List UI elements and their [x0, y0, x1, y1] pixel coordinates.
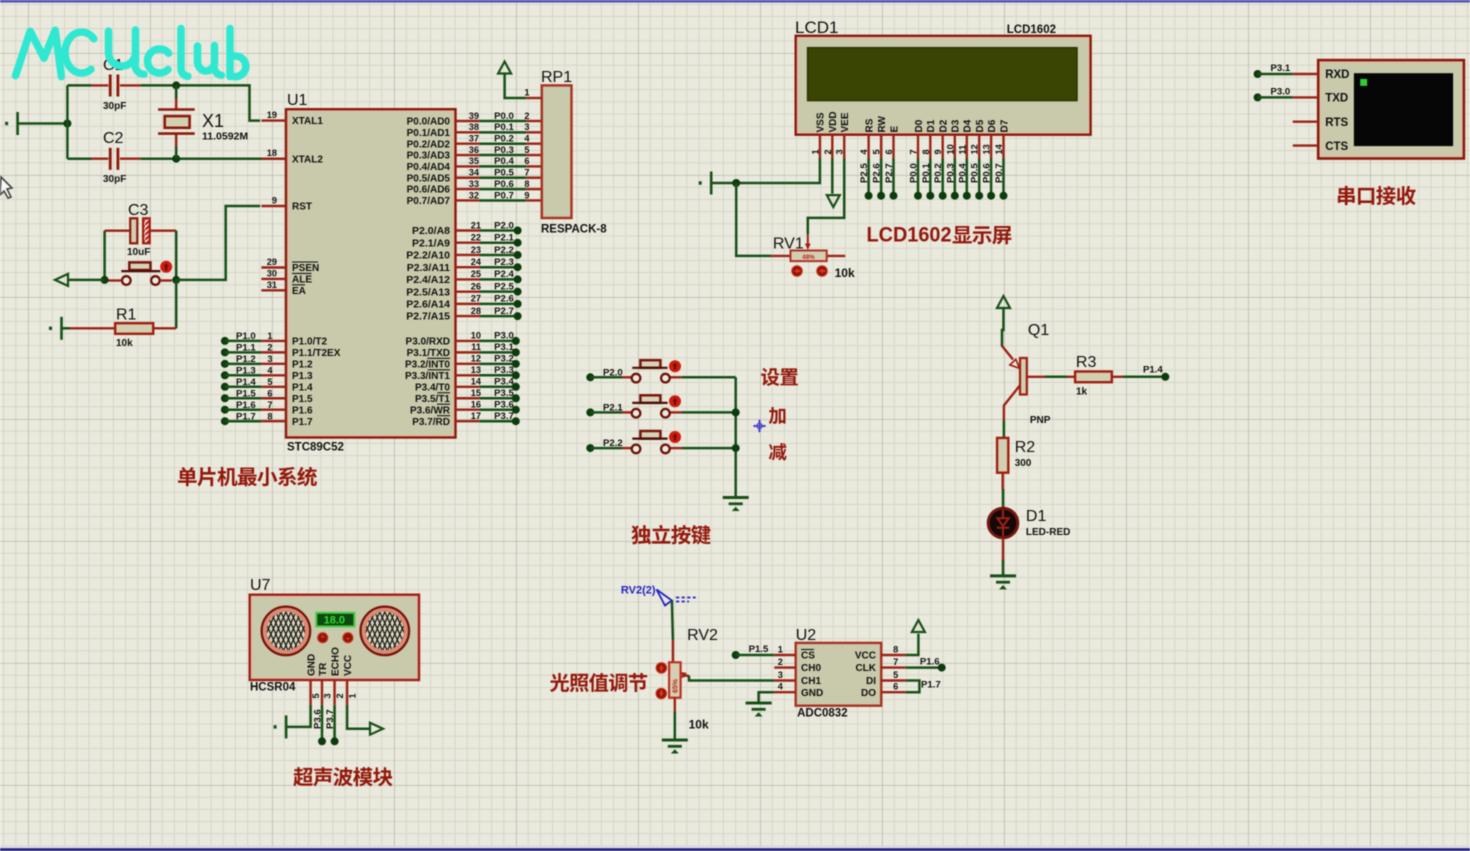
LED D1	[988, 508, 1018, 538]
LCD pin 5 RW	[880, 135, 882, 159]
capacitor C3 (polarized)	[105, 229, 130, 231]
svg-text:STC89C52: STC89C52	[287, 442, 344, 454]
svg-text:P3.0/RXD: P3.0/RXD	[406, 337, 450, 348]
LCD screen	[808, 48, 1077, 101]
svg-text:D5: D5	[975, 119, 986, 132]
wire VEE to RV1 wiper	[808, 159, 844, 235]
svg-text:LCD1602: LCD1602	[867, 223, 952, 246]
reset button	[129, 262, 150, 270]
svg-text:13: 13	[982, 144, 992, 154]
svg-text:33: 33	[469, 179, 479, 189]
svg-text:P0.3: P0.3	[494, 145, 514, 156]
svg-text:D6: D6	[987, 119, 998, 132]
svg-text:P2.4/A12: P2.4/A12	[406, 274, 450, 286]
svg-text:ADC0832: ADC0832	[797, 708, 848, 720]
U1 pin 38 P0.1/AD1 / wire to RP1 pin 3	[456, 131, 480, 133]
virtual terminal (serial monitor)	[1318, 60, 1464, 158]
svg-text:P3.3/INT1: P3.3/INT1	[405, 371, 450, 382]
svg-text:P0.2: P0.2	[494, 134, 514, 145]
svg-text:RP1: RP1	[541, 69, 572, 86]
svg-text:5: 5	[311, 693, 321, 698]
wire bottom rail	[67, 157, 91, 160]
wire ground to rail junction	[18, 122, 68, 125]
svg-text:RV2: RV2	[687, 627, 718, 644]
wire left vertical rail	[66, 85, 69, 158]
node junction (button left)	[101, 276, 109, 284]
mouse cursor	[0, 177, 12, 198]
LCD pin 4 RS	[867, 135, 869, 159]
power arrow (U7 VCC)	[370, 723, 383, 735]
svg-text:4: 4	[524, 134, 530, 144]
svg-text:VEE: VEE	[840, 112, 851, 132]
wire/node P2.5	[867, 159, 870, 196]
U1 pin 24 P2.3/A11 / node P2.3	[456, 266, 481, 268]
U1 pin 4 P1.3 / node P1.3	[221, 371, 229, 379]
svg-text:36: 36	[469, 145, 479, 155]
LCD pin 9 D2	[942, 135, 944, 159]
caption 设置	[761, 368, 798, 386]
svg-text:P2.3/A11: P2.3/A11	[407, 262, 450, 274]
svg-text:9: 9	[272, 196, 277, 206]
U7 pin 3 TR	[321, 680, 323, 705]
ground (D1)	[990, 576, 1016, 589]
svg-text:P0.2: P0.2	[933, 163, 944, 183]
U1 pin 32 P0.7/AD7 / wire to RP1 pin 9	[456, 199, 480, 201]
svg-text:RTS: RTS	[1325, 117, 1348, 129]
svg-text:CS: CS	[801, 651, 815, 662]
svg-text:Q1: Q1	[1028, 322, 1049, 339]
svg-text:6: 6	[884, 149, 894, 154]
LCD pin 2 VDD	[831, 135, 833, 159]
svg-text:14: 14	[471, 377, 482, 387]
wire VCC to power arrow	[347, 705, 370, 729]
wire probe to RV2	[672, 601, 673, 641]
svg-text:P3.6: P3.6	[494, 400, 514, 411]
svg-text:R1: R1	[116, 307, 137, 324]
potentiometer RV2	[669, 662, 681, 697]
svg-text:RESPACK-8: RESPACK-8	[541, 224, 607, 236]
power arrow (Q1 emitter)	[997, 296, 1010, 308]
svg-text:RST: RST	[292, 202, 312, 213]
svg-text:2: 2	[778, 657, 783, 667]
U2 pin 5 DI	[881, 679, 906, 681]
U1 pin 6 P1.5 / node P1.5	[221, 394, 229, 402]
wire power to emitter	[1002, 308, 1004, 347]
svg-text:18.0: 18.0	[324, 615, 345, 627]
wire/node P0.7	[1002, 159, 1005, 196]
resistor R3	[1067, 376, 1075, 378]
svg-text:P3.0: P3.0	[494, 331, 514, 342]
wire base to R3	[1027, 376, 1045, 378]
svg-text:15: 15	[471, 388, 481, 398]
wire button down to R1	[175, 280, 178, 328]
svg-text:P2.5/A13: P2.5/A13	[406, 286, 450, 298]
wire R3 to P1.4	[1123, 376, 1165, 379]
node junction bottom rail	[172, 155, 180, 163]
svg-text:P2.5: P2.5	[859, 163, 870, 183]
svg-text:P0.6: P0.6	[982, 163, 993, 183]
svg-text:D0: D0	[914, 119, 925, 132]
svg-text:19: 19	[267, 110, 277, 120]
U1 pin 7 P1.6 / node P1.6	[221, 406, 229, 414]
U2 pin 2 CH0	[774, 666, 795, 668]
svg-text:P0.6: P0.6	[494, 179, 514, 190]
svg-text:P0.2/AD2: P0.2/AD2	[407, 139, 451, 150]
push button (P2.1)	[586, 408, 594, 416]
resistor pack RP1 RESPACK-8	[542, 85, 572, 218]
svg-text:P0.3/AD3: P0.3/AD3	[407, 151, 451, 162]
wire GND to ground	[759, 692, 775, 703]
wire/node P0.6	[990, 159, 993, 196]
svg-text:31: 31	[267, 280, 277, 290]
svg-text:7: 7	[267, 400, 272, 410]
svg-text:23: 23	[471, 245, 481, 255]
svg-text:P2.7/A15: P2.7/A15	[406, 311, 450, 323]
svg-text:34: 34	[469, 168, 480, 178]
svg-text:P3.7/RD: P3.7/RD	[412, 417, 450, 428]
svg-text:X1: X1	[202, 111, 224, 131]
svg-text:P2.1/A9: P2.1/A9	[412, 237, 450, 249]
svg-text:P0.7: P0.7	[494, 190, 514, 201]
svg-text:21: 21	[471, 220, 481, 230]
caption 减	[769, 443, 787, 460]
svg-text:RW: RW	[877, 115, 888, 132]
svg-text:4: 4	[267, 366, 273, 376]
svg-text:D3: D3	[951, 119, 962, 132]
svg-text:P0.0/AD0: P0.0/AD0	[407, 117, 451, 128]
svg-text:LCD1: LCD1	[795, 18, 838, 37]
U2 pin 7 CLK	[881, 666, 906, 668]
wire ECHO / node P3.7	[333, 705, 336, 742]
svg-text:2: 2	[524, 111, 529, 121]
svg-text:P1.4: P1.4	[236, 377, 256, 388]
svg-text:29: 29	[267, 257, 277, 267]
svg-text:RS: RS	[864, 118, 875, 132]
ground (R1)	[49, 317, 62, 340]
svg-text:P1.7: P1.7	[921, 680, 941, 691]
svg-text:P2.7: P2.7	[494, 306, 514, 317]
wire GND pin to ground	[286, 705, 311, 727]
svg-text:P3.6: P3.6	[313, 709, 324, 729]
terminal pin RXD	[1293, 73, 1318, 75]
caption 串口接收	[1338, 186, 1416, 205]
LCD pin 10 D3	[954, 135, 956, 159]
terminal pin TXD	[1293, 96, 1318, 98]
svg-text:VDD: VDD	[828, 111, 839, 132]
svg-text:8: 8	[893, 645, 898, 655]
svg-text:P0.7/AD7: P0.7/AD7	[407, 196, 451, 207]
ADC U2 (ADC0832)	[796, 643, 882, 706]
wire ground rail to RV1 left	[736, 183, 771, 256]
svg-text:P3.0: P3.0	[1271, 87, 1291, 98]
svg-text:1: 1	[778, 645, 783, 655]
U1 pin 39 P0.0/AD0 / wire to RP1 pin 2	[456, 120, 480, 122]
wire/node P0.4	[966, 159, 969, 196]
svg-text:P1.4: P1.4	[292, 382, 313, 393]
power arrow (RP1 pin1)	[498, 62, 511, 74]
svg-text:5: 5	[524, 145, 529, 155]
svg-text:D7: D7	[999, 119, 1010, 132]
terminal screen	[1354, 73, 1453, 146]
svg-text:3: 3	[524, 122, 529, 132]
svg-text:GND: GND	[801, 688, 823, 699]
svg-text:P0.4: P0.4	[494, 156, 514, 167]
svg-text:10k: 10k	[689, 718, 709, 732]
svg-text:P0.1/AD1: P0.1/AD1	[407, 128, 451, 139]
svg-text:P2.1: P2.1	[494, 233, 514, 244]
distance display 18.0	[316, 613, 354, 627]
svg-text:RV2(2): RV2(2)	[621, 584, 656, 596]
svg-text:P1.0: P1.0	[236, 331, 256, 342]
svg-text:XTAL2: XTAL2	[292, 154, 323, 165]
node P3.1	[1254, 70, 1262, 78]
wire TR / node P3.6	[321, 705, 324, 742]
terminal pin CTS	[1293, 144, 1318, 146]
wire/node P0.0	[917, 159, 920, 196]
svg-text:CH0: CH0	[801, 663, 821, 674]
U1 pin 5 P1.4 / node P1.4	[221, 383, 229, 391]
svg-text:25: 25	[471, 269, 481, 279]
wire VDD	[831, 159, 834, 194]
wire button to RST riser	[176, 206, 260, 280]
wire R2 to D1	[1002, 473, 1004, 490]
svg-text:P3.7: P3.7	[494, 411, 514, 422]
svg-text:P2.3: P2.3	[494, 257, 514, 268]
svg-text:8: 8	[524, 179, 529, 189]
bottom window border	[0, 847, 1470, 849]
svg-text:P2.2: P2.2	[494, 245, 514, 256]
svg-text:ALE: ALE	[292, 275, 312, 286]
svg-text:1: 1	[810, 149, 820, 154]
svg-text:P0.1: P0.1	[921, 163, 932, 183]
svg-text:P1.5: P1.5	[749, 644, 769, 655]
wire/node P0.2	[941, 159, 944, 196]
svg-text:E: E	[889, 126, 900, 133]
svg-text:ECHO: ECHO	[330, 647, 341, 676]
LCD pin 3 VEE	[843, 135, 845, 159]
svg-text:7: 7	[909, 149, 919, 154]
U1 pin 29 PSEN	[261, 266, 286, 268]
node junction (P2.2 row)	[732, 444, 740, 452]
svg-text:2: 2	[267, 343, 272, 353]
svg-text:XTAL1: XTAL1	[292, 116, 323, 127]
svg-text:P1.5: P1.5	[292, 394, 313, 405]
LCD pin 11 D4	[966, 135, 968, 159]
caption 光照值调节	[550, 673, 647, 692]
U1 pin 10 P3.0/RXD / node P3.0	[456, 340, 480, 342]
U1 pin 1 P1.0/T2 / node P1.0	[221, 337, 229, 345]
svg-text:P3.4/T0: P3.4/T0	[415, 382, 450, 393]
svg-text:3: 3	[778, 670, 783, 680]
terminal cursor	[1360, 79, 1367, 86]
U1 pin 28 P2.7/A15 / node P2.7	[456, 315, 481, 317]
svg-text:P1.3: P1.3	[292, 371, 313, 382]
svg-text:32: 32	[469, 190, 479, 200]
push button (P2.0)	[586, 373, 594, 381]
svg-text:38: 38	[469, 122, 479, 132]
capacitor C1	[92, 84, 109, 86]
svg-text:DO: DO	[861, 688, 876, 699]
RV1 wiper arrow	[807, 234, 809, 245]
svg-text:D2: D2	[939, 119, 950, 132]
LCD pin 13 D6	[990, 135, 992, 159]
terminal pin RTS	[1293, 120, 1318, 122]
svg-text:3: 3	[835, 149, 845, 154]
LCD pin 14 D7	[1002, 135, 1004, 159]
svg-text:P2.7: P2.7	[884, 163, 895, 183]
MCUclub logo	[16, 29, 246, 77]
node junction VSS/RV1	[732, 179, 740, 187]
svg-text:D4: D4	[963, 119, 974, 132]
svg-text:12: 12	[970, 144, 980, 154]
U1 pin 35 P0.4/AD4 / wire to RP1 pin 6	[456, 165, 480, 167]
U1 pin 18 XTAL2	[261, 157, 286, 159]
svg-text:P1.2: P1.2	[292, 359, 313, 370]
U1 pin 33 P0.6/AD6 / wire to RP1 pin 8	[456, 188, 480, 190]
node P1.4	[1161, 373, 1169, 381]
svg-text:P2.4: P2.4	[494, 269, 514, 280]
svg-text:10: 10	[945, 144, 955, 154]
svg-text:CH1: CH1	[801, 676, 821, 687]
svg-text:R3: R3	[1076, 354, 1097, 371]
caption 超声波模块	[293, 767, 392, 786]
svg-text:P1.5: P1.5	[236, 388, 256, 399]
resistor R2	[1002, 438, 1004, 441]
svg-text:3: 3	[267, 354, 272, 364]
wire CLK / node P1.6	[906, 666, 942, 669]
svg-text:30: 30	[267, 268, 277, 278]
svg-text:12: 12	[471, 354, 481, 364]
svg-text:39: 39	[469, 111, 479, 121]
U1 pin 9 RST	[261, 205, 286, 207]
svg-text:U1: U1	[287, 92, 308, 109]
voltage probe	[657, 590, 696, 606]
MCU U1 (STC89C52)	[286, 109, 456, 437]
svg-text:PSEN: PSEN	[292, 263, 319, 274]
svg-text:D1: D1	[1026, 508, 1047, 525]
svg-text:P0.4/AD4: P0.4/AD4	[407, 162, 451, 173]
svg-text:28: 28	[471, 306, 481, 316]
wire VSS to ground	[711, 159, 820, 184]
ground (keys)	[723, 498, 749, 511]
svg-text:P2.0: P2.0	[494, 220, 514, 231]
svg-text:CTS: CTS	[1325, 141, 1348, 153]
U2 pin 1 CS	[774, 654, 795, 656]
svg-text:U7: U7	[250, 577, 271, 594]
U1 pin 21 P2.0/A8 / node P2.0	[456, 229, 481, 231]
svg-text:17: 17	[471, 411, 481, 421]
top window border	[0, 0, 1470, 3]
svg-text:P3.5: P3.5	[494, 388, 514, 399]
U1 pin 37 P0.2/AD2 / wire to RP1 pin 4	[456, 142, 480, 144]
svg-text:11.0592M: 11.0592M	[202, 131, 248, 143]
svg-text:P0.0: P0.0	[494, 111, 514, 122]
svg-text:P1.1/T2EX: P1.1/T2EX	[292, 348, 341, 359]
svg-text:P3.6/WR: P3.6/WR	[410, 405, 451, 416]
svg-text:4: 4	[859, 149, 869, 155]
svg-text:1: 1	[267, 331, 272, 341]
U1 pin 2 P1.1/T2EX / node P1.1	[221, 348, 229, 356]
U1 pin 12 P3.2/INT0 / node P3.2	[456, 363, 480, 365]
svg-text:C3: C3	[128, 202, 149, 219]
svg-text:37: 37	[469, 134, 479, 144]
indicator LEDs	[318, 633, 328, 643]
node junction (P2.1 row)	[732, 408, 740, 416]
svg-text:2: 2	[335, 693, 345, 698]
svg-text:P0.6/AD6: P0.6/AD6	[407, 185, 451, 196]
svg-text:P1.3: P1.3	[236, 366, 256, 377]
LCD pin 12 D5	[978, 135, 980, 159]
svg-text:65%: 65%	[673, 678, 680, 693]
svg-text:5: 5	[267, 377, 272, 387]
svg-text:P3.2/INT0: P3.2/INT0	[405, 359, 450, 370]
svg-text:6: 6	[893, 682, 898, 692]
wire/node P0.3	[954, 159, 957, 196]
svg-text:P1.6: P1.6	[920, 657, 940, 668]
svg-text:5: 5	[872, 149, 882, 154]
svg-text:P1.0/T2: P1.0/T2	[292, 337, 327, 348]
svg-text:1: 1	[524, 88, 529, 98]
wire button to rail	[682, 447, 736, 450]
svg-text:P2.6: P2.6	[494, 294, 514, 305]
RV1 adjust buttons	[792, 266, 802, 276]
svg-text:9: 9	[933, 149, 943, 154]
caption 独立按键	[631, 525, 710, 545]
RV2 wiper to CH1	[682, 673, 686, 678]
svg-text:PNP: PNP	[1030, 415, 1051, 426]
svg-text:R2: R2	[1015, 439, 1036, 456]
wire/node P2.7	[892, 159, 895, 196]
svg-text:10k: 10k	[116, 338, 133, 349]
wire power to RP1 pin 1	[505, 74, 527, 99]
svg-text:300: 300	[1015, 458, 1032, 469]
svg-text:8: 8	[921, 149, 931, 154]
svg-text:14: 14	[994, 143, 1004, 154]
push button (P2.2)	[586, 444, 594, 452]
node junction top rail	[172, 81, 180, 89]
wire top rail	[67, 84, 91, 87]
svg-text:5: 5	[893, 670, 898, 680]
button toggle icon	[160, 261, 172, 273]
svg-text:4: 4	[778, 682, 784, 692]
svg-text:P2.6/A14: P2.6/A14	[406, 298, 450, 310]
svg-text:30pF: 30pF	[103, 174, 126, 185]
ultrasonic module U7 HCSR04	[250, 595, 419, 680]
wire CH1 from RV2	[752, 679, 774, 682]
power arrow down (VDD)	[827, 195, 840, 207]
svg-text:P1.6: P1.6	[292, 405, 313, 416]
LCD pin 8 D1	[929, 135, 931, 159]
svg-text:P0.5: P0.5	[970, 163, 981, 183]
svg-text:30pF: 30pF	[103, 101, 126, 112]
wire button to rail	[682, 411, 736, 414]
potentiometer RV1	[771, 255, 791, 257]
svg-text:6: 6	[267, 388, 272, 398]
svg-text:P2.0: P2.0	[603, 367, 623, 378]
svg-text:LED-RED: LED-RED	[1026, 527, 1070, 538]
svg-text:10uF: 10uF	[127, 247, 150, 258]
svg-text:2: 2	[823, 149, 833, 154]
RV2 adjust buttons	[656, 663, 666, 673]
caption 加	[769, 407, 786, 424]
svg-text:10: 10	[471, 331, 481, 341]
svg-text:U2: U2	[796, 627, 817, 644]
LCD1 LCD1602 module	[796, 36, 1091, 135]
wire/node P0.5	[978, 159, 981, 196]
svg-text:P2.6: P2.6	[872, 163, 883, 183]
svg-text:HCSR04: HCSR04	[250, 682, 296, 694]
svg-text:TR: TR	[318, 662, 329, 676]
